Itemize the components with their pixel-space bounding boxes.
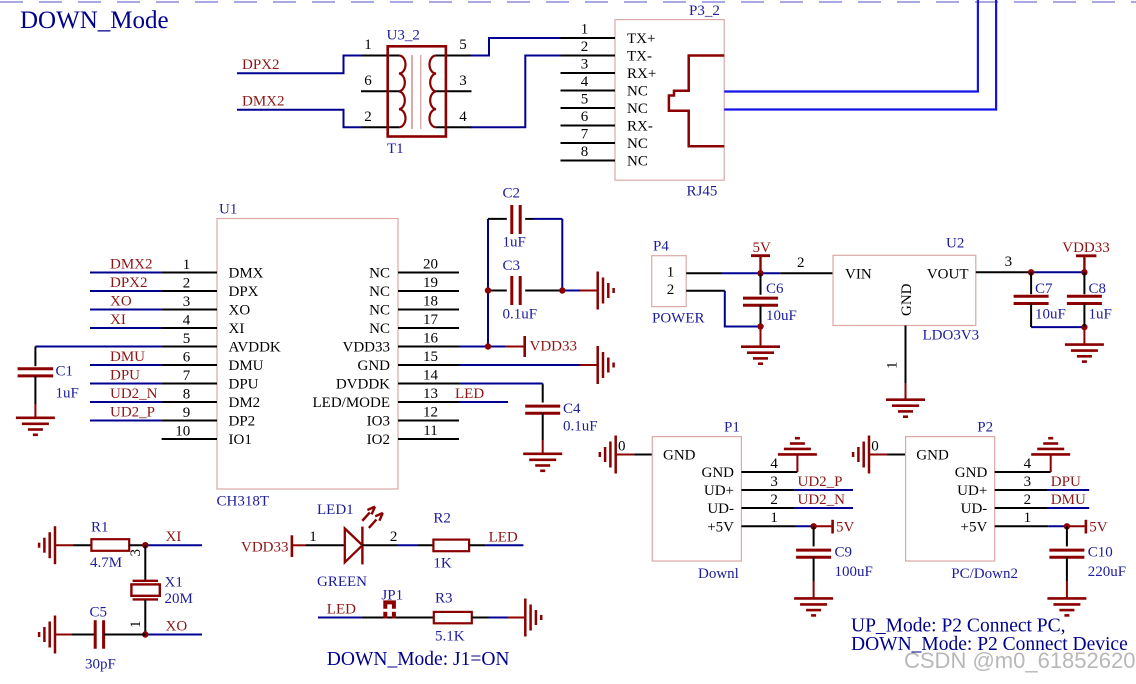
U2 GND pin 1 — [905, 326, 907, 384]
svg-text:5: 5 — [581, 92, 589, 108]
svg-text:XI: XI — [229, 321, 245, 337]
P2 pin3 wire / net DPU — [995, 489, 1048, 491]
svg-text:VDD33: VDD33 — [241, 540, 289, 556]
svg-text:C7: C7 — [1035, 281, 1053, 297]
IC U1 body — [217, 219, 398, 490]
power port 5V at P2 — [1067, 525, 1085, 527]
svg-text:U1: U1 — [219, 202, 237, 218]
svg-text:15: 15 — [423, 349, 438, 365]
svg-text:X1: X1 — [165, 575, 183, 591]
ground at U2 — [886, 398, 925, 401]
svg-text:RX+: RX+ — [627, 66, 656, 82]
svg-text:1: 1 — [1024, 510, 1032, 526]
wire P4 pin2 to C6 — [686, 290, 725, 292]
wire U1 pin5 AVDDK to C1 — [35, 346, 161, 348]
svg-text:XI: XI — [166, 529, 182, 545]
jumper JP1 — [385, 602, 394, 608]
svg-text:+5V: +5V — [707, 520, 734, 536]
P1 pin2 wire / net UD2_N — [741, 507, 794, 509]
wire T1 pin4 to RJ45 pin2 — [471, 56, 562, 128]
U1 pin 16 VDD33 — [398, 346, 459, 348]
svg-text:Downl: Downl — [698, 566, 739, 582]
svg-text:DOWN_Mode: J1=ON: DOWN_Mode: J1=ON — [327, 649, 510, 670]
P3_2 pin 6 RX- — [561, 125, 616, 127]
svg-text:C5: C5 — [90, 605, 108, 621]
connector P3_2 body — [615, 20, 724, 181]
svg-text:2: 2 — [364, 109, 372, 125]
connector P4 body — [652, 256, 687, 307]
svg-text:P4: P4 — [653, 239, 669, 255]
wire C7-C8 bottom — [1031, 326, 1084, 328]
svg-text:2: 2 — [797, 255, 805, 271]
T1 pin 2 — [361, 126, 399, 128]
svg-text:3: 3 — [183, 294, 191, 310]
LED1 wire cathode — [362, 544, 397, 546]
U1 pin 12 IO3 — [398, 420, 459, 422]
wire net DMX2 to T1 pin 2 — [237, 110, 361, 128]
svg-text:UD2_N: UD2_N — [110, 386, 158, 402]
wire/net label XO — [90, 309, 162, 311]
ground at C4 — [523, 452, 562, 455]
svg-text:TX+: TX+ — [627, 31, 655, 47]
net label LED right of R2 — [469, 544, 486, 546]
wire/net label UD2_P — [90, 420, 162, 422]
svg-text:0.1uF: 0.1uF — [503, 307, 538, 323]
wire C6 to ground — [760, 327, 762, 347]
power port VDD33 right — [1083, 256, 1085, 272]
P3_2 pin 7 NC — [561, 142, 616, 144]
svg-text:8: 8 — [183, 387, 191, 403]
P1 pin1 wire +5V — [741, 525, 795, 527]
transformer T1 body — [388, 46, 446, 136]
svg-text:4: 4 — [770, 456, 778, 472]
svg-text:5V: 5V — [753, 240, 772, 256]
svg-text:8: 8 — [581, 144, 589, 160]
svg-text:5: 5 — [183, 331, 191, 347]
capacitor C3 — [488, 290, 507, 292]
svg-text:DMX2: DMX2 — [110, 257, 153, 273]
svg-text:1uF: 1uF — [56, 386, 79, 402]
ground left of R1 — [54, 526, 57, 564]
svg-text:C8: C8 — [1089, 281, 1107, 297]
svg-text:1uF: 1uF — [503, 235, 526, 251]
svg-text:TX-: TX- — [627, 49, 652, 65]
U1 pin 20 NC — [398, 272, 459, 274]
svg-text:5: 5 — [459, 37, 467, 53]
ground at C8 — [1065, 343, 1104, 346]
junction dots C2/C3 — [485, 287, 491, 293]
svg-text:VDD33: VDD33 — [343, 340, 391, 356]
svg-text:2: 2 — [770, 492, 778, 508]
capacitor C5 — [94, 620, 97, 649]
U1 pin 5 AVDDK — [162, 346, 217, 348]
svg-text:10uF: 10uF — [1035, 307, 1066, 323]
svg-text:NC: NC — [627, 154, 648, 170]
T1 pin 3 — [436, 90, 472, 92]
P1 pin4 wire to chassis ground — [741, 471, 797, 473]
svg-text:GND: GND — [358, 358, 391, 374]
ground right of R3 — [524, 599, 527, 637]
svg-text:XI: XI — [110, 312, 126, 328]
wire/net label DPU — [90, 383, 162, 385]
ground right of C3 — [596, 272, 599, 310]
svg-text:C2: C2 — [503, 186, 521, 202]
svg-text:3: 3 — [1005, 254, 1013, 270]
svg-text:6: 6 — [364, 73, 372, 89]
svg-text:1: 1 — [770, 510, 778, 526]
svg-text:DMU: DMU — [110, 349, 145, 365]
wire C2/C3 left vertical — [487, 219, 489, 347]
svg-text:GND: GND — [916, 448, 949, 464]
U1 pin 8 DM2 — [162, 401, 217, 403]
U1 pin 14 DVDDK — [398, 383, 459, 385]
svg-text:VDD33: VDD33 — [1062, 240, 1110, 256]
wire C2 right vertical — [561, 219, 563, 291]
svg-text:NC: NC — [369, 321, 390, 337]
svg-text:0: 0 — [871, 439, 879, 455]
svg-text:T1: T1 — [387, 141, 404, 157]
svg-text:7: 7 — [581, 127, 589, 143]
svg-text:1: 1 — [581, 22, 589, 38]
svg-text:C10: C10 — [1088, 545, 1113, 561]
U1 pin 11 IO2 — [398, 438, 459, 440]
svg-text:3: 3 — [459, 73, 467, 89]
U1 pin 10 IO1 — [162, 438, 217, 440]
svg-text:GND: GND — [702, 465, 735, 481]
svg-text:17: 17 — [423, 312, 439, 328]
regulator U2 body — [833, 255, 976, 325]
power port VDD33 at U1 — [505, 346, 524, 348]
svg-text:XO: XO — [166, 618, 188, 634]
svg-text:VIN: VIN — [845, 266, 872, 282]
svg-text:4: 4 — [581, 74, 589, 90]
svg-text:IO3: IO3 — [367, 414, 390, 430]
wire/net label DMX2 — [90, 272, 162, 274]
svg-text:13: 13 — [423, 386, 438, 402]
P2 pin1 wire +5V — [995, 525, 1049, 527]
svg-text:12: 12 — [423, 405, 438, 421]
capacitor C10 — [1066, 526, 1068, 546]
svg-text:11: 11 — [423, 423, 437, 439]
svg-text:4: 4 — [1024, 456, 1032, 472]
svg-text:5.1K: 5.1K — [435, 629, 465, 645]
P3_2 pin 3 RX+ — [561, 72, 616, 74]
svg-text:2: 2 — [1024, 492, 1032, 508]
U1 pin 7 DPU — [162, 383, 217, 385]
svg-text:UD2_N: UD2_N — [798, 492, 846, 508]
svg-text:4: 4 — [183, 313, 191, 329]
U2 pin 2 VIN — [780, 272, 833, 274]
wire C8 to ground — [1083, 327, 1085, 344]
capacitor C7 — [1030, 272, 1032, 294]
power port 5V at P1 — [814, 525, 832, 527]
svg-text:RJ45: RJ45 — [687, 184, 718, 200]
net label LED at U1 pin13 — [459, 401, 508, 403]
U1 pin 19 NC — [398, 290, 459, 292]
svg-text:U3_2: U3_2 — [387, 28, 420, 44]
wire LED to JP1 — [361, 617, 434, 619]
ground at C10 — [1047, 597, 1086, 600]
connector P1 body — [652, 437, 741, 561]
wire C3 to ground — [562, 290, 580, 292]
svg-text:NC: NC — [627, 101, 648, 117]
svg-text:VDD33: VDD33 — [530, 339, 578, 355]
U1 pin 18 NC — [398, 309, 459, 311]
svg-text:DMU: DMU — [229, 358, 264, 374]
T1 pin 1 — [361, 55, 399, 57]
svg-text:7: 7 — [183, 368, 191, 384]
capacitor C6 — [760, 273, 762, 294]
P1 pin3 wire / net UD2_P — [741, 489, 794, 491]
svg-text:1: 1 — [667, 264, 675, 280]
svg-text:IO2: IO2 — [367, 432, 390, 448]
svg-text:GREEN: GREEN — [317, 574, 367, 590]
P2 pin2 wire / net DMU — [995, 507, 1048, 509]
svg-text:PC/Down2: PC/Down2 — [951, 566, 1018, 582]
svg-text:1: 1 — [885, 362, 901, 370]
LED1 wire anode — [306, 544, 345, 546]
U1 pin 4 XI — [162, 327, 217, 329]
svg-text:30pF: 30pF — [85, 657, 116, 673]
P3_2 pin 5 NC — [561, 107, 616, 109]
power port 5V — [759, 256, 761, 274]
svg-text:C3: C3 — [503, 258, 521, 274]
wire/net label DPX2 — [90, 290, 162, 292]
svg-text:LED: LED — [455, 386, 484, 402]
svg-text:1: 1 — [183, 257, 191, 273]
svg-text:DVDDK: DVDDK — [336, 377, 390, 393]
P2 pin4 wire to chassis ground — [995, 471, 1051, 473]
wire/net label XI — [90, 327, 162, 329]
ground 0 left of P1 — [614, 436, 617, 474]
wire RJ45 to top edge B — [724, 0, 996, 110]
svg-text:C4: C4 — [563, 401, 581, 417]
wire RJ45 to top edge A — [724, 0, 978, 92]
svg-text:UD-: UD- — [707, 501, 734, 517]
svg-text:CSDN @m0_61852620: CSDN @m0_61852620 — [904, 648, 1135, 673]
P3_2 pin 4 NC — [561, 90, 616, 92]
capacitor C9 — [813, 526, 815, 546]
capacitor C1 — [18, 367, 54, 370]
wire P4 pin1 to U2 VIN — [686, 272, 722, 274]
resistor R3 — [434, 612, 472, 623]
U2 pin 3 VOUT wire — [976, 271, 1031, 273]
svg-text:4.7M: 4.7M — [90, 555, 122, 571]
svg-text:1K: 1K — [433, 556, 452, 572]
wire T1 pin5 to RJ45 pin1 — [471, 38, 562, 56]
svg-text:U2: U2 — [946, 236, 964, 252]
T1 pin 6 — [361, 90, 399, 92]
svg-text:XO: XO — [229, 303, 251, 319]
svg-text:DP2: DP2 — [229, 414, 256, 430]
wire U1 pin14 DVDDK to C4 — [459, 383, 543, 385]
svg-text:UD+: UD+ — [704, 483, 734, 499]
svg-text:DMX2: DMX2 — [242, 94, 285, 110]
svg-text:3: 3 — [128, 549, 144, 557]
diode LED1 — [345, 529, 363, 563]
svg-text:DMX: DMX — [229, 266, 264, 282]
svg-text:GND: GND — [899, 283, 915, 316]
svg-text:DPU: DPU — [229, 377, 259, 393]
U1 pin 9 DP2 — [162, 420, 217, 422]
svg-text:14: 14 — [423, 368, 439, 384]
svg-text:DMU: DMU — [1051, 492, 1086, 508]
capacitor C2 — [488, 218, 507, 220]
svg-text:1uF: 1uF — [1089, 307, 1112, 323]
svg-text:CH318T: CH318T — [217, 494, 270, 510]
svg-text:DPU: DPU — [1051, 474, 1081, 490]
svg-text:IO1: IO1 — [229, 432, 252, 448]
svg-text:10uF: 10uF — [766, 308, 797, 324]
svg-text:1: 1 — [364, 37, 372, 53]
svg-text:+5V: +5V — [961, 520, 988, 536]
svg-text:UD+: UD+ — [957, 483, 987, 499]
svg-text:NC: NC — [369, 284, 390, 300]
wire U1 pin15 GND to ground — [459, 364, 580, 366]
svg-text:18: 18 — [423, 294, 438, 310]
svg-text:LED/MODE: LED/MODE — [313, 395, 391, 411]
wire/net label UD2_N — [90, 401, 162, 403]
svg-text:UD2_P: UD2_P — [110, 405, 155, 421]
svg-text:C1: C1 — [56, 364, 74, 380]
svg-text:C9: C9 — [835, 545, 853, 561]
ground left of C5 — [54, 616, 57, 654]
svg-text:DPX: DPX — [229, 284, 259, 300]
svg-text:XO: XO — [110, 294, 132, 310]
svg-text:2: 2 — [581, 39, 589, 55]
U1 pin 2 DPX — [162, 290, 217, 292]
svg-text:R3: R3 — [435, 591, 453, 607]
P3_2 pin 1 TX+ — [561, 37, 616, 39]
ground right of U1 pin15 — [596, 346, 599, 384]
svg-text:LDO3V3: LDO3V3 — [923, 328, 980, 344]
svg-text:P2: P2 — [977, 420, 993, 436]
svg-text:3: 3 — [770, 474, 778, 490]
svg-text:DPX2: DPX2 — [242, 57, 280, 73]
svg-text:220uF: 220uF — [1088, 564, 1126, 580]
svg-text:DOWN_Mode: DOWN_Mode — [20, 7, 169, 34]
T1 pin 5 — [436, 55, 472, 57]
svg-text:C6: C6 — [766, 281, 784, 297]
svg-text:20M: 20M — [165, 591, 193, 607]
svg-text:DPX2: DPX2 — [110, 275, 148, 291]
wire R3 to ground — [472, 617, 489, 619]
ground 0 left of P2 — [868, 436, 871, 474]
capacitor C8 — [1083, 272, 1085, 294]
svg-text:NC: NC — [369, 303, 390, 319]
U1 pin 6 DMU — [162, 364, 217, 366]
svg-text:16: 16 — [423, 331, 439, 347]
svg-text:LED: LED — [489, 529, 518, 545]
svg-text:3: 3 — [581, 57, 589, 73]
connector P2 body — [906, 437, 995, 561]
svg-text:R2: R2 — [433, 511, 451, 527]
T1 core — [411, 55, 413, 129]
svg-text:4: 4 — [459, 109, 467, 125]
RJ45 plug symbol — [669, 56, 724, 147]
svg-text:LED1: LED1 — [317, 502, 354, 518]
T1 pin 4 — [436, 126, 472, 128]
svg-text:GND: GND — [955, 465, 988, 481]
svg-text:3: 3 — [1024, 474, 1032, 490]
svg-text:2: 2 — [183, 276, 191, 292]
svg-text:DPU: DPU — [110, 368, 140, 384]
wire/net label DMU — [90, 364, 162, 366]
svg-text:NC: NC — [369, 266, 390, 282]
capacitor C4 — [525, 405, 560, 408]
svg-text:AVDDK: AVDDK — [229, 340, 281, 356]
svg-text:2: 2 — [390, 529, 398, 545]
svg-text:P3_2: P3_2 — [689, 3, 720, 19]
ground at C9 — [794, 597, 833, 600]
resistor R2 — [433, 540, 469, 552]
svg-text:2: 2 — [667, 282, 675, 298]
svg-text:0.1uF: 0.1uF — [563, 419, 598, 435]
svg-text:R1: R1 — [91, 520, 109, 536]
svg-text:LED: LED — [327, 601, 356, 617]
svg-text:VOUT: VOUT — [927, 266, 969, 282]
LED1 arrows — [362, 512, 370, 520]
P3_2 pin 8 NC — [561, 160, 616, 162]
svg-text:20: 20 — [423, 257, 438, 273]
P3_2 pin 2 TX- — [561, 55, 616, 57]
wire net DPX2 to T1 pin 1 — [237, 56, 361, 74]
U1 pin 15 GND — [398, 364, 459, 366]
svg-text:UD-: UD- — [961, 501, 988, 517]
svg-text:6: 6 — [581, 109, 589, 125]
U1 pin 17 NC — [398, 327, 459, 329]
ground at C1 — [16, 416, 55, 419]
svg-text:P1: P1 — [724, 420, 740, 436]
svg-text:NC: NC — [627, 136, 648, 152]
svg-text:1: 1 — [128, 621, 144, 629]
sheet border (dashed) — [0, 1, 1136, 3]
svg-text:GND: GND — [663, 448, 696, 464]
svg-text:10: 10 — [175, 424, 190, 440]
ground at C6 — [741, 345, 780, 348]
svg-text:JP1: JP1 — [381, 588, 403, 604]
U1 pin 13 LED/MODE — [398, 401, 459, 403]
svg-text:6: 6 — [183, 350, 191, 366]
svg-text:5V: 5V — [836, 520, 855, 536]
svg-text:19: 19 — [423, 275, 438, 291]
resistor R1 — [91, 539, 129, 551]
U1 pin 3 XO — [162, 309, 217, 311]
U1 pin 1 DMX — [162, 272, 217, 274]
svg-text:1: 1 — [309, 529, 317, 545]
svg-text:RX-: RX- — [627, 119, 653, 135]
svg-text:POWER: POWER — [652, 311, 705, 327]
svg-text:100uF: 100uF — [835, 564, 873, 580]
svg-text:0: 0 — [618, 439, 626, 455]
svg-text:9: 9 — [183, 405, 191, 421]
svg-text:5V: 5V — [1089, 520, 1108, 536]
svg-text:UD2_P: UD2_P — [798, 474, 843, 490]
wire U1 pin16 VDD33 — [459, 346, 505, 348]
svg-text:DM2: DM2 — [229, 395, 261, 411]
svg-text:NC: NC — [627, 84, 648, 100]
